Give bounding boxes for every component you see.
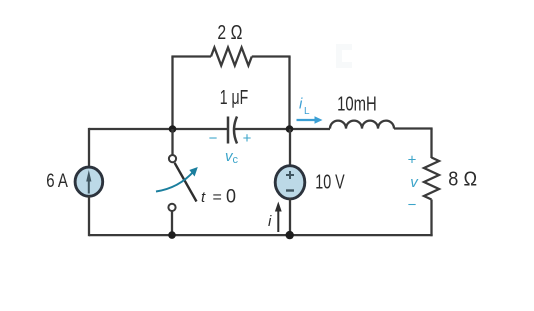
svg-text:6 A: 6 A [46,170,68,192]
wire switch branch lower [171,211,173,236]
wire left vertical upper to current source [88,128,90,168]
junction dot left middle [169,125,177,133]
current iL label and arrow [297,96,323,124]
current i label and arrow [268,202,282,233]
switch t=0 [156,155,236,211]
svg-text:1 μF: 1 μF [220,87,248,109]
wire top horizontal right segment [252,55,291,57]
junction dot bottom left [168,231,176,239]
voltage source 10V [275,166,345,199]
faint scan artifact [336,44,352,68]
wire left vertical lower from current source [88,196,90,236]
junction dot bottom right [286,231,294,239]
wire capacitor to inductor [234,128,330,130]
svg-text:i: i [268,213,272,230]
wire right vertical lower [430,200,432,237]
node vc label [225,148,239,166]
svg-text:10mH: 10mH [337,93,377,115]
inductor 10mH [330,93,394,128]
wire middle horizontal from left node to capacitor [89,128,227,130]
svg-text:c: c [233,154,239,166]
wire inductor to right corner [394,127,433,129]
svg-text:−: − [408,197,417,214]
svg-text:+: + [408,152,417,169]
current source 6A [46,167,102,196]
svg-text:2 Ω: 2 Ω [217,22,242,44]
svg-text:L: L [304,106,310,117]
wire top-right vertical [288,57,290,130]
wire voltage source branch lower [289,198,291,236]
svg-text:8 Ω: 8 Ω [448,169,477,191]
junction dot right middle [286,125,294,133]
svg-text:0: 0 [226,187,236,208]
wire top horizontal left segment [171,55,211,57]
wire right vertical upper [430,129,432,159]
wire voltage source branch upper [289,129,291,167]
capacitor 1 uF [209,87,252,147]
svg-text:+: + [243,130,252,147]
wire top-left vertical [171,57,173,130]
svg-text:−: − [209,130,218,147]
resistor 8 ohm [424,158,477,200]
svg-text:=: = [213,189,222,206]
svg-text:i: i [299,96,303,113]
svg-text:10 V: 10 V [315,171,345,193]
svg-text:v: v [410,174,419,191]
resistor v labels [408,152,420,214]
wire switch branch upper [171,129,173,155]
svg-text:t: t [201,189,206,206]
wire bottom horizontal [89,234,433,236]
resistor 2 ohm [211,22,252,66]
